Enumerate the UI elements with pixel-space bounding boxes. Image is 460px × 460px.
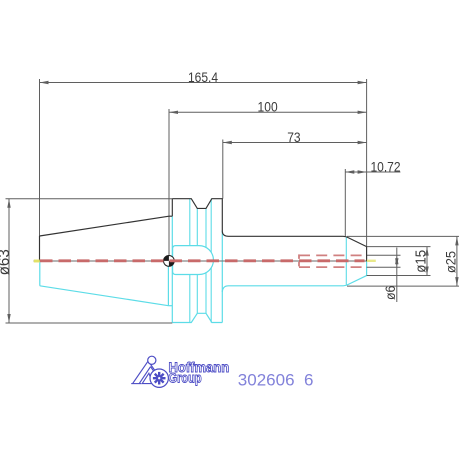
svg-text:ø6: ø6 bbox=[383, 286, 399, 300]
svg-text:165.4: 165.4 bbox=[188, 69, 218, 85]
svg-text:ø25: ø25 bbox=[443, 251, 459, 273]
svg-text:ø15: ø15 bbox=[412, 250, 429, 273]
svg-text:Group: Group bbox=[169, 370, 202, 386]
svg-text:ø63: ø63 bbox=[0, 249, 13, 275]
svg-text:10.72: 10.72 bbox=[370, 159, 400, 175]
svg-text:302606 6: 302606 6 bbox=[238, 370, 314, 389]
svg-text:73: 73 bbox=[287, 129, 300, 145]
svg-text:100: 100 bbox=[258, 99, 278, 115]
